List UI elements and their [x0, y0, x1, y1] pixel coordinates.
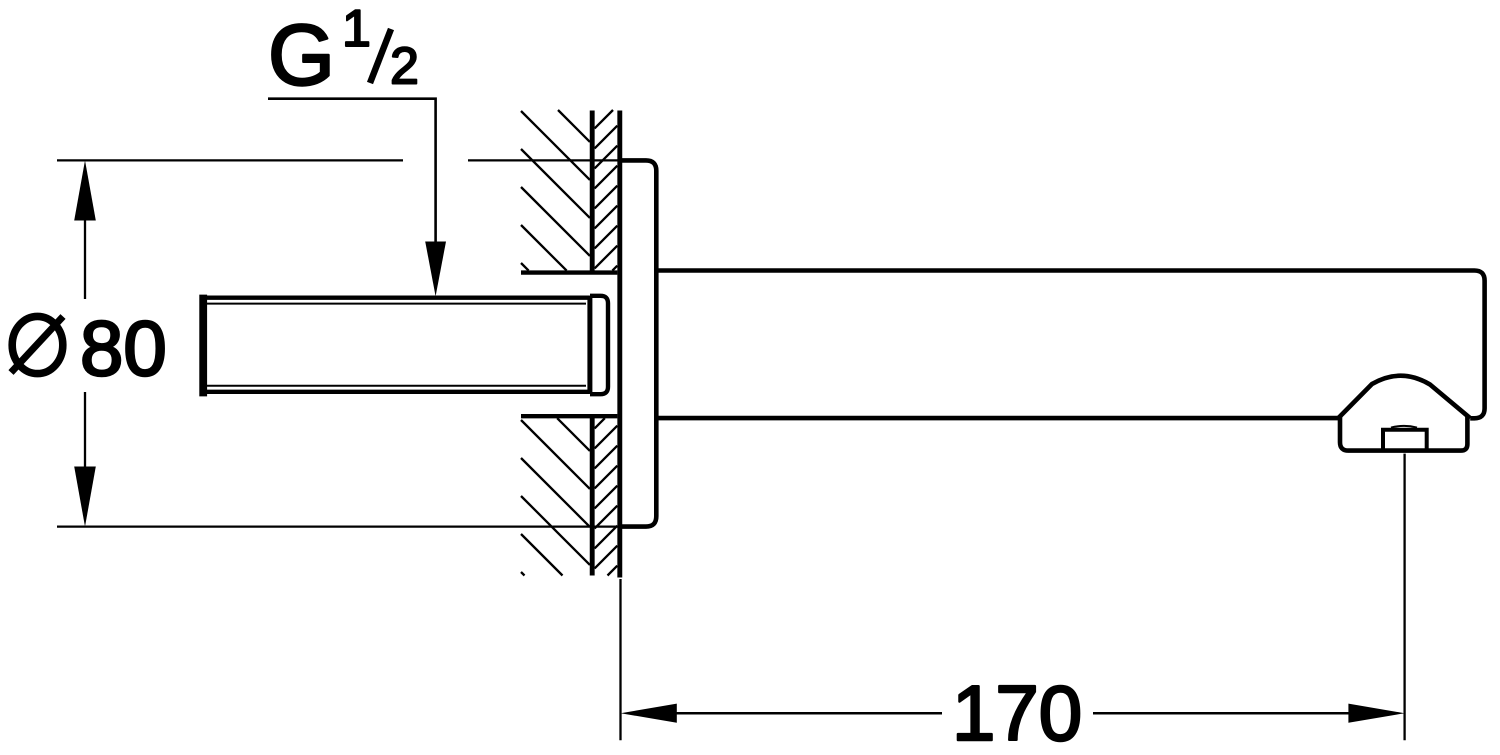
dim Ø80 arrow down — [74, 467, 96, 527]
wall plaster strip hatch upper — [595, 110, 613, 128]
dim 170 arrow right — [1348, 704, 1404, 723]
threaded pipe left end cap — [199, 295, 207, 397]
spout bottom edge — [656, 416, 1338, 421]
dim 170 left extension line — [619, 579, 621, 740]
aerator skirt — [1340, 416, 1467, 451]
dim 170 right extension line — [1403, 454, 1405, 741]
aerator dome — [1338, 376, 1470, 418]
wall hole bottom edge — [521, 414, 617, 418]
dim 170 dimension line right part — [1093, 712, 1350, 715]
wall surface line — [617, 111, 622, 578]
aerator outlet rectangle — [1383, 430, 1427, 449]
svg-text:170: 170 — [952, 669, 1082, 755]
dim Ø80 bottom extension line — [57, 525, 620, 527]
wall back line lower — [590, 416, 595, 575]
threaded pipe top inner (thread) line — [206, 303, 586, 305]
wall back line upper — [590, 111, 595, 271]
dim Ø80 top extension line — [57, 159, 403, 161]
wall plaster strip hatch lower — [595, 418, 605, 428]
spout body outline — [656, 271, 1485, 419]
threaded pipe bottom outer line — [201, 390, 590, 394]
text Ø (drawn diameter symbol) — [12, 316, 63, 373]
svg-text:1: 1 — [342, 0, 371, 58]
leader line G 1/2 — [268, 99, 436, 242]
wall hatch upper block — [558, 110, 590, 142]
threaded pipe right end cap — [587, 296, 592, 394]
wall hatch lower block — [557, 418, 590, 451]
dim 170 dimension line left part — [674, 712, 942, 715]
svg-text:2: 2 — [390, 38, 419, 96]
dim Ø80 arrow up — [74, 160, 96, 220]
aerator outlet top bump — [1391, 426, 1417, 428]
leader arrow (down, tip on pipe) — [425, 242, 446, 297]
collar ring at wall — [590, 296, 608, 394]
dim 170 arrow left — [621, 704, 677, 723]
threaded pipe bottom inner (thread) line — [206, 385, 586, 387]
svg-text:80: 80 — [80, 304, 167, 392]
threaded pipe top outer line — [201, 296, 590, 300]
svg-text:G: G — [268, 8, 335, 104]
wall hole top edge — [521, 270, 617, 274]
flange (escutcheon) — [620, 160, 657, 526]
dim Ø80 dimension line — [84, 218, 86, 299]
